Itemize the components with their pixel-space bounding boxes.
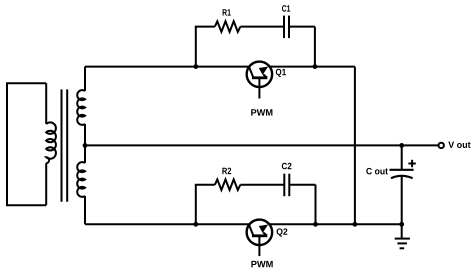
wire snubber2 right leg [315,185,317,225]
wire bottom row left (secondary bottom to Q2) [85,223,250,225]
label R2 [222,168,231,174]
label C1 [282,5,290,12]
node C out top junction [399,143,404,148]
capacitor C out (polarized) [390,145,414,224]
node right-vertical to bottom row junction [353,222,358,227]
wire snubber1 rail right [290,26,315,28]
label V out [448,142,470,148]
wire snubber1 rail middle [240,26,283,28]
node snubber2 left junction [193,222,198,227]
label Q2 [277,228,288,236]
transformer T1 primary winding [7,83,56,205]
label C out [366,168,388,175]
resistor R2 [215,179,241,190]
transistor Q1 [247,62,273,99]
terminal V out [439,143,444,148]
wire snubber2 rail right [290,184,315,186]
transistor Q2 [247,220,273,257]
node snubber2 right junction [313,222,318,227]
ground [395,224,410,248]
wire top row right (Q1 to top-right corner) [270,66,355,68]
wire right vertical (common node) [354,67,356,225]
label C2 [282,163,292,170]
wire snubber1 right leg [314,27,316,67]
node snubber1 left junction [193,64,198,69]
wire snubber2 rail left [195,184,215,186]
wire snubber2 left leg [195,185,197,225]
label Q1 [276,69,286,77]
capacitor C1 [284,16,289,38]
wire top row left (secondary top to Q1) [85,66,249,68]
node C out bottom junction [399,222,404,227]
wire snubber1 rail left [195,26,215,28]
transformer T1 secondary bottom winding [77,145,85,224]
label PWM (Q2 base) [251,261,272,267]
node snubber1 right junction [313,64,318,69]
capacitor C2 [284,174,289,197]
wire center tap to V out [85,144,439,146]
wire bottom row right (Q2 to ground node) [269,223,401,225]
node center tap junction [83,143,88,148]
transformer T1 core [62,89,68,201]
wire snubber2 rail middle [240,184,283,186]
label + polarity mark [408,160,415,167]
transformer T1 secondary top winding [77,67,85,146]
wire snubber1 left leg [195,27,197,67]
label R1 [223,9,231,15]
label PWM (Q1 base) [251,109,272,115]
resistor R1 [215,21,241,32]
